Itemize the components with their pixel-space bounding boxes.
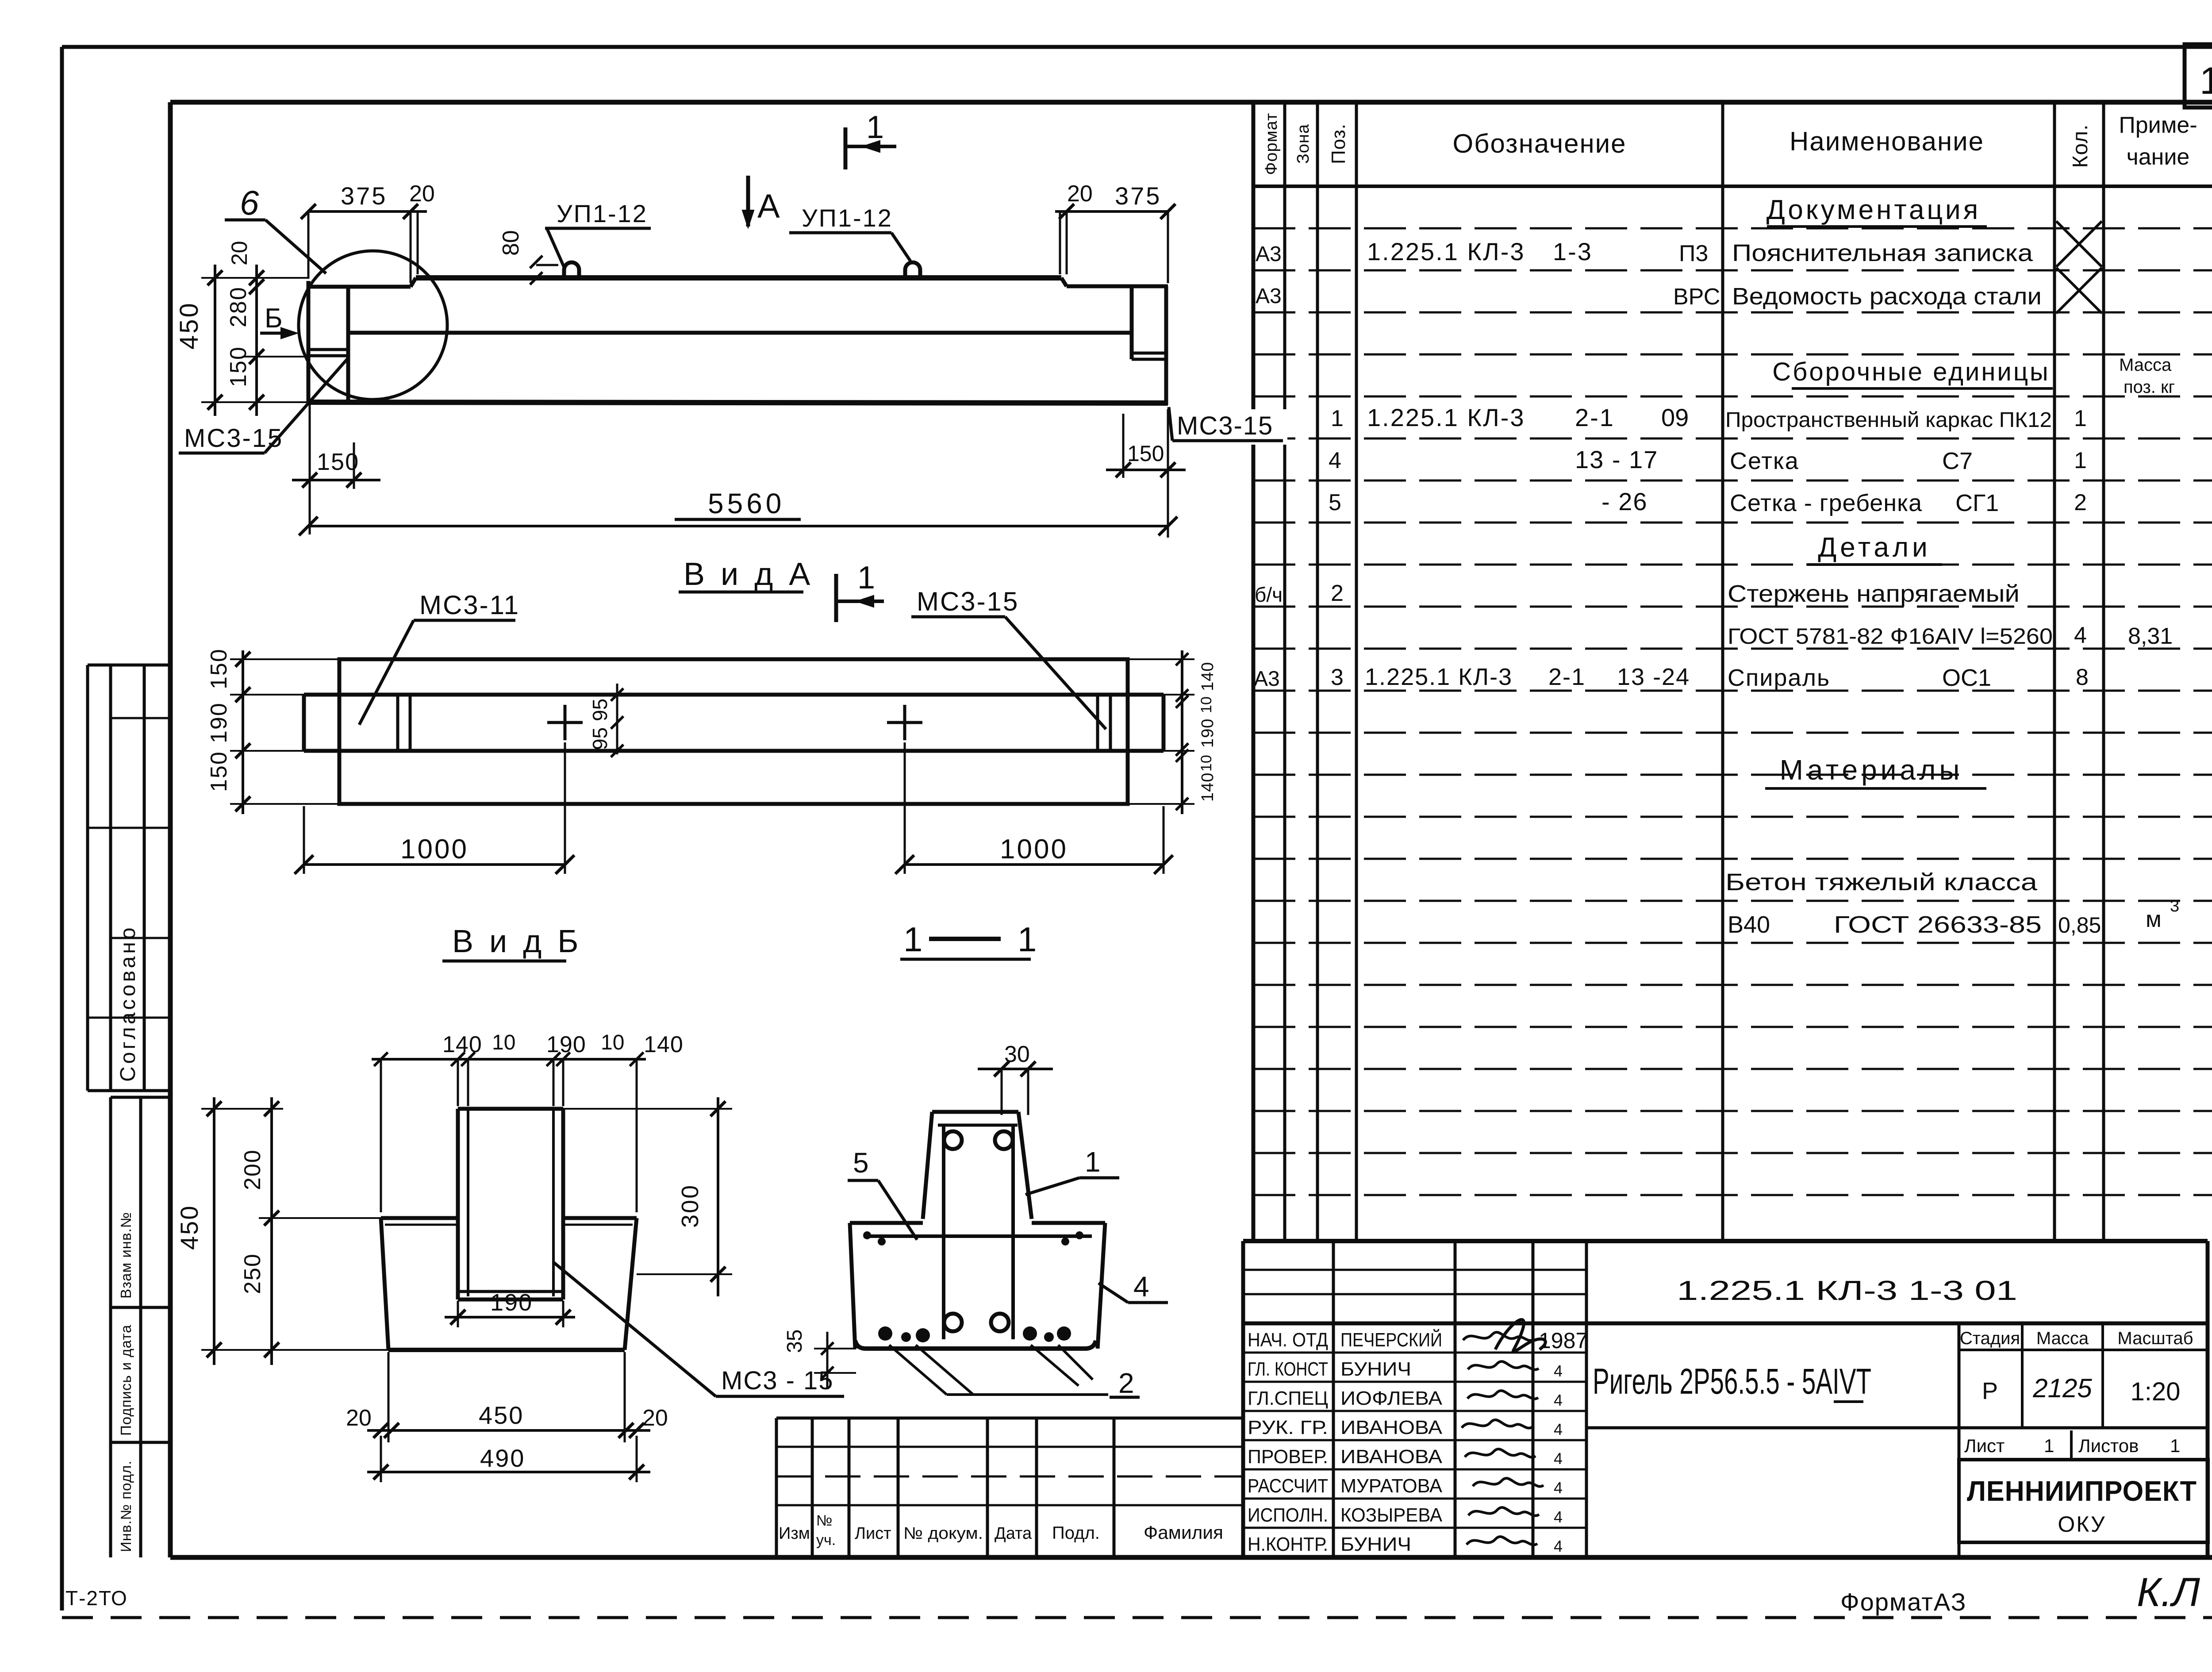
- svg-text:6: 6: [240, 183, 259, 222]
- svg-text:10: 10: [492, 1031, 515, 1054]
- svg-text:Листов: Листов: [2078, 1435, 2139, 1456]
- svg-text:ФорматАЗ: ФорматАЗ: [1840, 1588, 1966, 1616]
- svg-text:Масса: Масса: [2036, 1329, 2089, 1348]
- svg-text:375: 375: [341, 182, 387, 210]
- svg-text:150: 150: [1127, 441, 1164, 466]
- svg-text:1.225.1 КЛ-3: 1.225.1 КЛ-3: [1365, 664, 1513, 690]
- svg-text:ИСПОЛН.: ИСПОЛН.: [1248, 1504, 1328, 1526]
- svg-text:8: 8: [2076, 665, 2089, 690]
- svg-text:Инв.№ подл.: Инв.№ подл.: [118, 1461, 134, 1552]
- svg-text:ГЛ. КОНСТ: ГЛ. КОНСТ: [1248, 1358, 1328, 1380]
- svg-text:Изм: Изм: [779, 1524, 810, 1543]
- svg-text:ОКУ: ОКУ: [2058, 1512, 2106, 1537]
- svg-text:ГОСТ 26633-85: ГОСТ 26633-85: [1834, 911, 2042, 938]
- svg-text:10: 10: [1198, 755, 1215, 772]
- svg-text:150: 150: [317, 449, 359, 475]
- svg-text:140: 140: [442, 1032, 482, 1057]
- svg-text:ГОСТ 5781-82 Ф16АIV l=5260: ГОСТ 5781-82 Ф16АIV l=5260: [1728, 624, 2053, 649]
- svg-text:20: 20: [346, 1405, 372, 1431]
- svg-text:0,85: 0,85: [2058, 913, 2101, 938]
- svg-text:Обозначение: Обозначение: [1452, 129, 1626, 158]
- svg-text:1: 1: [1331, 406, 1344, 431]
- svg-text:ИОФЛЕВА: ИОФЛЕВА: [1340, 1388, 1443, 1409]
- svg-text:95: 95: [588, 699, 611, 721]
- svg-text:С7: С7: [1942, 448, 1973, 474]
- svg-text:чание: чание: [2127, 144, 2190, 170]
- svg-text:450: 450: [175, 301, 204, 350]
- svg-text:Материалы: Материалы: [1780, 754, 1963, 786]
- svg-text:ПЕЧЕРСКИЙ: ПЕЧЕРСКИЙ: [1340, 1328, 1442, 1351]
- svg-text:5: 5: [853, 1147, 869, 1179]
- svg-text:ПРОВЕР.: ПРОВЕР.: [1248, 1446, 1328, 1468]
- svg-text:СГ1: СГ1: [1955, 490, 1999, 516]
- svg-text:В40: В40: [1728, 911, 1770, 938]
- svg-text:УП1-12: УП1-12: [557, 200, 648, 227]
- svg-text:5: 5: [1329, 490, 1341, 515]
- svg-text:1: 1: [2074, 406, 2087, 431]
- svg-text:В и д А: В и д А: [684, 557, 814, 592]
- svg-text:Сетка: Сетка: [1730, 448, 1799, 474]
- svg-text:4: 4: [1554, 1537, 1563, 1555]
- svg-text:10: 10: [601, 1031, 624, 1054]
- svg-text:4: 4: [1554, 1449, 1563, 1468]
- svg-text:Поз.: Поз.: [1328, 123, 1349, 164]
- svg-text:1000: 1000: [1000, 834, 1068, 865]
- svg-text:А3: А3: [1256, 242, 1282, 266]
- svg-text:13 -24: 13 -24: [1617, 664, 1690, 690]
- svg-text:1: 1: [866, 110, 884, 145]
- svg-text:МС3 - 15: МС3 - 15: [721, 1366, 834, 1395]
- svg-text:Пояснительная записка: Пояснительная записка: [1732, 240, 2033, 266]
- svg-text:190: 190: [1198, 719, 1217, 748]
- svg-text:4: 4: [1554, 1508, 1563, 1526]
- svg-text:Подпись и дата: Подпись и дата: [118, 1325, 134, 1436]
- svg-text:МС3-15: МС3-15: [917, 587, 1019, 616]
- svg-text:2: 2: [1118, 1367, 1134, 1399]
- svg-text:2-1: 2-1: [1548, 664, 1586, 690]
- svg-text:4: 4: [1554, 1391, 1563, 1409]
- svg-text:95: 95: [588, 727, 611, 750]
- svg-text:Т-2ТО: Т-2ТО: [65, 1587, 128, 1610]
- svg-text:30: 30: [1004, 1042, 1030, 1067]
- svg-text:Наименование: Наименование: [1790, 127, 1984, 156]
- svg-text:150: 150: [226, 346, 251, 387]
- svg-text:Приме-: Приме-: [2119, 112, 2197, 138]
- svg-text:б/ч: б/ч: [1255, 583, 1283, 606]
- svg-text:80: 80: [498, 230, 524, 256]
- svg-text:№: №: [816, 1512, 832, 1529]
- svg-text:А: А: [757, 188, 780, 225]
- svg-text:490: 490: [480, 1444, 525, 1472]
- svg-text:Согласовано: Согласовано: [116, 925, 140, 1082]
- svg-text:250: 250: [240, 1253, 265, 1294]
- svg-text:1: 1: [2170, 1435, 2180, 1456]
- svg-text:Сборочные единицы: Сборочные единицы: [1772, 357, 2050, 386]
- svg-text:Дата: Дата: [995, 1524, 1032, 1543]
- svg-text:150: 150: [206, 751, 232, 792]
- svg-text:- 26: - 26: [1601, 488, 1648, 515]
- svg-text:Масса: Масса: [2119, 355, 2172, 375]
- svg-text:09: 09: [1661, 404, 1689, 431]
- svg-text:20: 20: [227, 241, 252, 265]
- svg-text:450: 450: [479, 1401, 524, 1429]
- svg-text:3: 3: [2170, 897, 2179, 915]
- svg-text:1: 1: [903, 920, 922, 959]
- svg-text:450: 450: [175, 1205, 203, 1250]
- svg-text:1:20: 1:20: [2131, 1377, 2181, 1406]
- svg-text:Документация: Документация: [1767, 195, 1981, 225]
- svg-text:Р: Р: [1982, 1378, 1998, 1404]
- svg-text:В и д Б: В и д Б: [452, 924, 582, 959]
- svg-text:Бетон тяжелый класса: Бетон тяжелый класса: [1725, 869, 2038, 896]
- svg-text:1: 1: [1085, 1146, 1101, 1178]
- svg-text:ОС1: ОС1: [1942, 665, 1991, 691]
- svg-text:Взам инв.№: Взам инв.№: [118, 1212, 134, 1299]
- svg-text:Формат: Формат: [1262, 113, 1281, 175]
- svg-text:1000: 1000: [400, 834, 469, 865]
- svg-text:НАЧ. ОТД: НАЧ. ОТД: [1248, 1329, 1328, 1351]
- svg-text:Кол.: Кол.: [2069, 124, 2092, 168]
- svg-text:2: 2: [2074, 490, 2087, 515]
- svg-text:1: 1: [857, 560, 875, 596]
- svg-text:Детали: Детали: [1818, 532, 1931, 563]
- svg-text:4: 4: [1554, 1420, 1563, 1438]
- svg-text:м: м: [2146, 907, 2162, 932]
- svg-text:190: 190: [546, 1032, 586, 1057]
- svg-text:140: 140: [1198, 773, 1217, 802]
- svg-text:2: 2: [1331, 580, 1344, 606]
- svg-text:190: 190: [490, 1289, 533, 1316]
- svg-text:Ведомость расхода стали: Ведомость расхода стали: [1732, 283, 2042, 310]
- svg-text:П3: П3: [1679, 241, 1708, 266]
- svg-text:4: 4: [1554, 1479, 1563, 1497]
- svg-text:4: 4: [1329, 448, 1341, 473]
- svg-text:3: 3: [1331, 665, 1344, 690]
- svg-text:4: 4: [1554, 1362, 1563, 1380]
- svg-text:БУНИЧ: БУНИЧ: [1340, 1358, 1411, 1380]
- svg-text:ГЛ.СПЕЦ: ГЛ.СПЕЦ: [1248, 1388, 1328, 1409]
- svg-text:1: 1: [2074, 448, 2087, 473]
- svg-text:Фамилия: Фамилия: [1144, 1522, 1223, 1543]
- svg-text:1-3: 1-3: [1553, 238, 1593, 265]
- svg-text:150: 150: [206, 648, 232, 689]
- svg-text:140: 140: [644, 1032, 684, 1057]
- svg-text:4: 4: [2074, 623, 2087, 648]
- svg-text:1: 1: [2044, 1435, 2054, 1456]
- svg-text:375: 375: [1115, 182, 1161, 210]
- svg-text:5560: 5560: [708, 488, 785, 519]
- svg-text:200: 200: [240, 1149, 265, 1190]
- svg-text:К.Л: К.Л: [2137, 1570, 2200, 1615]
- svg-text:20: 20: [1067, 181, 1093, 207]
- svg-text:Сетка - гребенка: Сетка - гребенка: [1730, 490, 1922, 516]
- svg-text:280: 280: [226, 286, 251, 327]
- svg-text:РУК. ГР.: РУК. ГР.: [1248, 1417, 1328, 1438]
- svg-text:КОЗЫРЕВА: КОЗЫРЕВА: [1340, 1504, 1443, 1526]
- svg-text:Лист: Лист: [855, 1524, 891, 1543]
- svg-text:МС3-11: МС3-11: [419, 590, 520, 620]
- svg-text:10: 10: [2200, 60, 2212, 102]
- svg-text:140: 140: [1198, 662, 1217, 691]
- svg-text:Пространственный каркас ПК12: Пространственный каркас ПК12: [1725, 408, 2052, 432]
- svg-text:ВРС: ВРС: [1673, 284, 1720, 310]
- svg-text:4: 4: [1133, 1271, 1149, 1303]
- svg-text:10: 10: [1198, 696, 1215, 713]
- svg-text:Н.КОНТР.: Н.КОНТР.: [1248, 1534, 1328, 1555]
- svg-text:Стержень напрягаемый: Стержень напрягаемый: [1728, 580, 2020, 607]
- svg-text:А3: А3: [1254, 667, 1280, 691]
- svg-text:20: 20: [409, 181, 435, 207]
- svg-text:190: 190: [206, 702, 232, 743]
- svg-text:2125: 2125: [2032, 1373, 2092, 1403]
- svg-text:300: 300: [677, 1184, 703, 1228]
- svg-text:ЛЕННИИПРОЕКТ: ЛЕННИИПРОЕКТ: [1967, 1475, 2197, 1507]
- svg-text:Зона: Зона: [1294, 124, 1313, 164]
- svg-text:поз. кг: поз. кг: [2124, 377, 2175, 397]
- svg-text:МС3-15: МС3-15: [1177, 411, 1273, 440]
- svg-text:УП1-12: УП1-12: [802, 204, 893, 232]
- svg-text:МУРАТОВА: МУРАТОВА: [1340, 1475, 1443, 1497]
- svg-text:1.225.1 КЛ-3 1-3 01: 1.225.1 КЛ-3 1-3 01: [1677, 1276, 2017, 1306]
- svg-text:Б: Б: [265, 303, 283, 334]
- svg-text:БУНИЧ: БУНИЧ: [1340, 1534, 1411, 1555]
- svg-text:Стадия: Стадия: [1960, 1329, 2020, 1348]
- svg-text:Спираль: Спираль: [1728, 665, 1830, 691]
- svg-text:35: 35: [783, 1330, 806, 1353]
- svg-text:А3: А3: [1256, 284, 1282, 308]
- svg-text:13 - 17: 13 - 17: [1575, 446, 1658, 473]
- svg-text:РАССЧИТ: РАССЧИТ: [1248, 1475, 1328, 1497]
- svg-text:ИВАНОВА: ИВАНОВА: [1340, 1417, 1443, 1438]
- svg-text:Подл.: Подл.: [1052, 1523, 1100, 1543]
- svg-text:№ докум.: № докум.: [903, 1524, 983, 1543]
- svg-text:1.225.1 КЛ-3: 1.225.1 КЛ-3: [1367, 404, 1525, 431]
- svg-text:20: 20: [642, 1405, 668, 1431]
- svg-text:Ригель 2Р56.5.5 - 5АIVТ: Ригель 2Р56.5.5 - 5АIVТ: [1593, 1361, 1871, 1402]
- svg-text:1: 1: [1018, 920, 1037, 959]
- svg-text:2-1: 2-1: [1575, 404, 1615, 431]
- svg-text:Масштаб: Масштаб: [2117, 1329, 2193, 1348]
- svg-text:Лист: Лист: [1964, 1435, 2005, 1456]
- svg-text:ИВАНОВА: ИВАНОВА: [1340, 1446, 1443, 1468]
- svg-text:8,31: 8,31: [2128, 623, 2173, 649]
- svg-text:уч.: уч.: [816, 1532, 836, 1549]
- svg-text:1.225.1 КЛ-3: 1.225.1 КЛ-3: [1367, 238, 1525, 265]
